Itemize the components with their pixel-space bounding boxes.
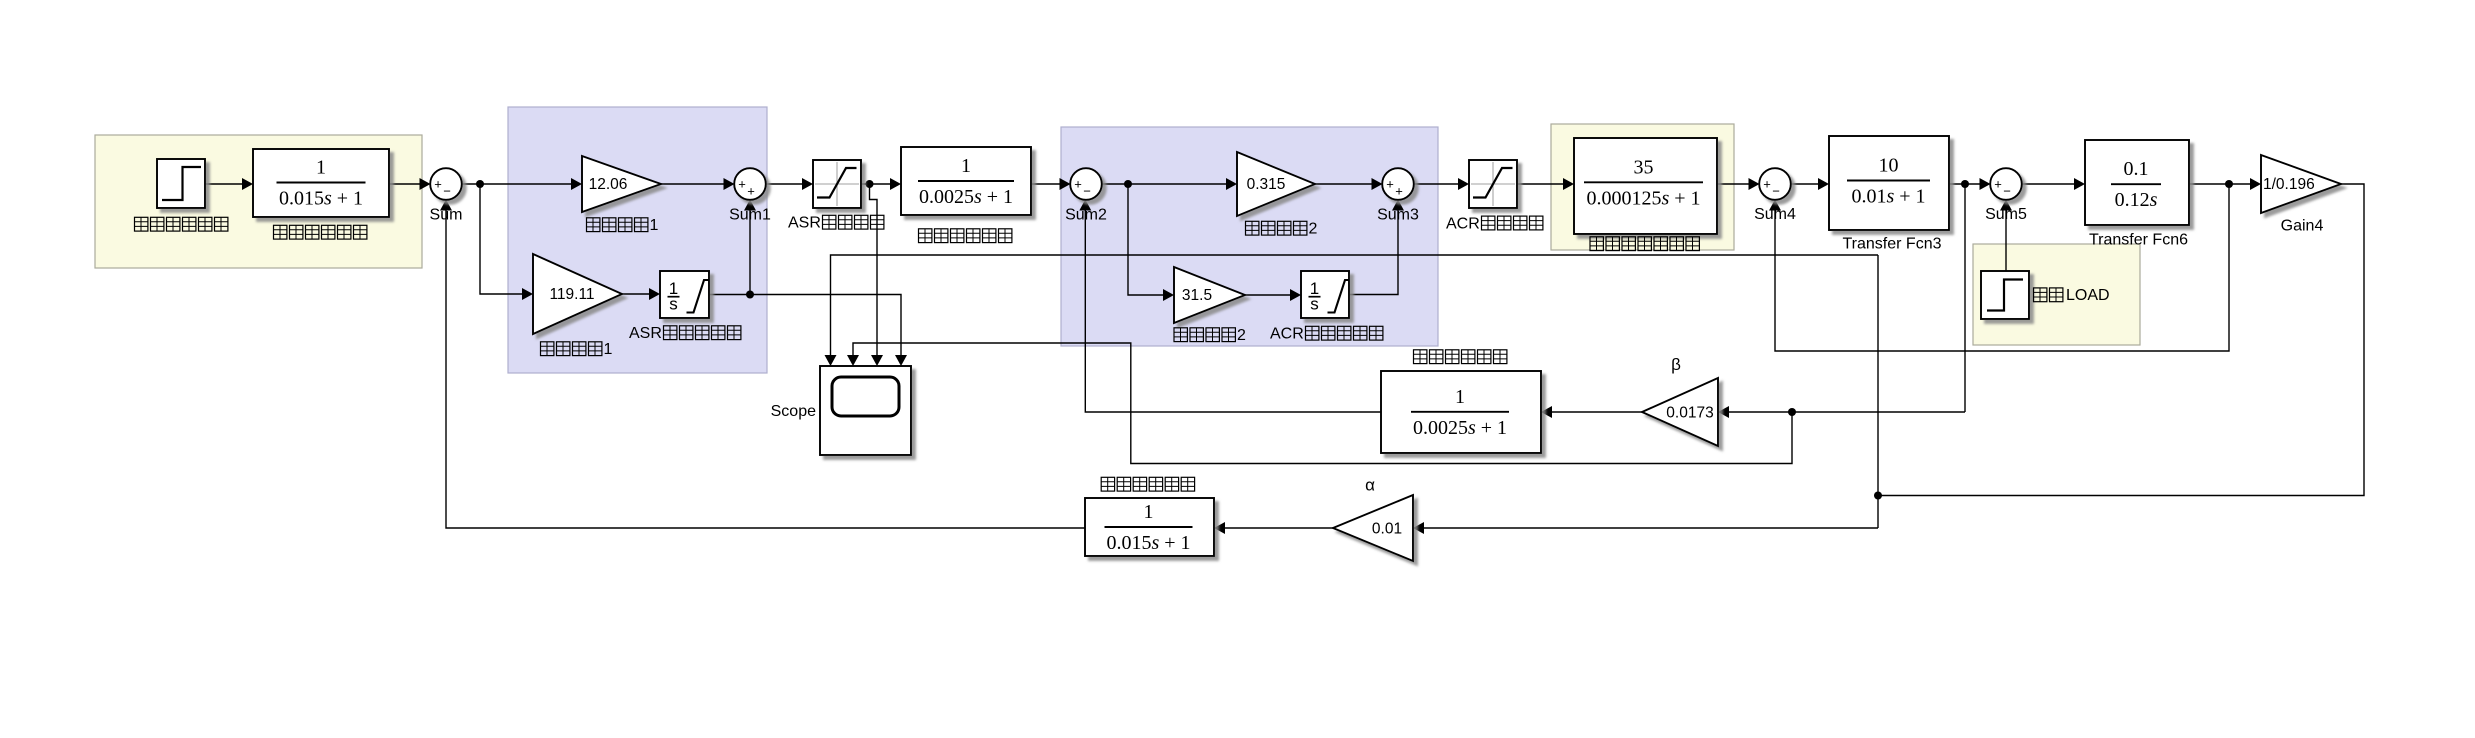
sum Sum4 — [1759, 168, 1791, 200]
wire gain31.5 to integrator2 — [1245, 294, 1291, 296]
wire branch to gain 31.5 — [1128, 184, 1164, 295]
wire current branch down — [1964, 184, 1966, 412]
svg-text:0.015s + 1: 0.015s + 1 — [279, 188, 363, 210]
wire gain119.11 to integrator1 — [622, 293, 650, 295]
node EMF after TF6 — [2225, 180, 2233, 188]
label 电流给定滤波 — [919, 229, 932, 243]
area load group (yellow) — [1973, 244, 2140, 345]
svg-text:10: 10 — [1879, 155, 1899, 177]
wire ASR output branch to scope input3 — [870, 184, 878, 356]
wire branch to gain 119.11 — [480, 184, 523, 294]
area speed-reference group (yellow) — [95, 135, 422, 268]
integrator 1/s ACR限幅积分器 — [1301, 271, 1349, 318]
gain 31.5 积分常数2 — [1174, 267, 1245, 323]
wire Sum1 to saturation ASR — [766, 183, 803, 185]
svg-text:1: 1 — [316, 157, 326, 179]
saturation ASR输出限幅 — [813, 160, 861, 208]
wire integrator1 branch up to Sum1 — [749, 211, 751, 295]
label 转速滤波环节 — [1101, 477, 1114, 491]
wire TF6 to Gain4 — [2189, 183, 2251, 185]
sum Sum2 — [1070, 168, 1102, 200]
svg-text:2: 2 — [1309, 221, 1318, 238]
sum Sum3 — [1382, 168, 1414, 200]
wire Gain4 out down to node n — [1878, 184, 2364, 496]
wire current-filter to Sum2 — [1085, 211, 1381, 413]
wire TF35 to Sum4 — [1717, 183, 1750, 185]
wire Sum4 to TF3 — [1791, 183, 1820, 185]
svg-text:−: − — [1772, 184, 1780, 199]
label 转速给定滤波 — [274, 225, 287, 239]
svg-text:1: 1 — [1455, 386, 1465, 408]
node current Id after TF3 — [1961, 180, 1969, 188]
gain 12.06 比例常数1 — [582, 156, 661, 212]
label 比例常数1 — [587, 218, 600, 232]
wire saturation ASR to TF2 — [861, 183, 891, 185]
area power converter group (yellow) — [1551, 124, 1734, 250]
svg-text:s: s — [1310, 295, 1319, 314]
svg-text:1: 1 — [961, 155, 971, 177]
wire beta to TF current-filter — [1552, 411, 1642, 413]
node current on beta line — [1788, 408, 1796, 416]
gain Gain4 1/0.196 — [2261, 155, 2341, 213]
svg-text:119.11: 119.11 — [549, 286, 594, 303]
svg-text:+: + — [1395, 184, 1403, 199]
label 比例常数2 — [1246, 221, 1259, 235]
gain 119.11 积分常数1 — [533, 254, 622, 334]
wire Sum3 to saturation ACR — [1414, 183, 1460, 185]
area ACR PI controller group (lavender) — [1061, 127, 1438, 346]
transfer fcn 转速给定滤波 1/(0.015s+1) — [253, 149, 389, 217]
node after Sum2 — [1124, 180, 1132, 188]
saturation ACR输出限幅 — [1469, 160, 1517, 208]
svg-text:0.0025s + 1: 0.0025s + 1 — [919, 186, 1013, 208]
label 电力电子变换器 — [1590, 237, 1603, 251]
label 转速给定电压 — [135, 217, 148, 231]
svg-text:+: + — [434, 177, 442, 192]
label 积分常数1 — [541, 342, 554, 356]
svg-text:+: + — [1994, 177, 2002, 192]
svg-text:2: 2 — [1237, 327, 1246, 344]
label 电流滤波环节 — [1414, 350, 1427, 364]
wire Sum to gain 12.06 — [462, 183, 573, 185]
svg-text:0.1: 0.1 — [2124, 158, 2149, 180]
svg-text:0.0173: 0.0173 — [1666, 405, 1713, 422]
wire n to gain alpha — [1424, 527, 1878, 529]
transfer fcn 电流滤波环节 1/(0.0025s+1) — [1381, 371, 1541, 453]
svg-text:0.015s + 1: 0.015s + 1 — [1106, 532, 1190, 554]
svg-text:ACR: ACR — [1270, 326, 1304, 343]
wire gain0.315 to Sum3 — [1315, 183, 1373, 185]
svg-text:1: 1 — [650, 217, 659, 234]
svg-text:1: 1 — [604, 341, 613, 358]
svg-text:35: 35 — [1634, 156, 1654, 178]
node speed n — [1874, 492, 1882, 500]
svg-text:−: − — [2003, 184, 2011, 199]
wire gain12.06 to Sum1 — [661, 183, 725, 185]
svg-text:+: + — [1386, 177, 1394, 192]
wire node n vertical — [1877, 255, 1879, 528]
wire saturation ACR to TF35 — [1517, 183, 1564, 185]
svg-text:Sum4: Sum4 — [1754, 206, 1796, 223]
transfer fcn Transfer Fcn6 0.1/(0.12s) — [2085, 140, 2189, 225]
wire TF1 to Sum — [389, 183, 421, 185]
area ASR PI controller group (lavender) — [508, 107, 767, 373]
transfer fcn 电流给定滤波 1/(0.0025s+1) — [901, 147, 1031, 215]
svg-text:β: β — [1671, 355, 1681, 374]
wire current to gain beta — [1729, 411, 1965, 413]
svg-text:Sum3: Sum3 — [1377, 207, 1419, 224]
wire alpha to TF speed-filter — [1225, 527, 1333, 529]
node integrator1 output — [746, 291, 754, 299]
node after saturation ASR — [866, 180, 874, 188]
svg-text:0.000125s + 1: 0.000125s + 1 — [1586, 187, 1700, 209]
svg-text:ASR: ASR — [788, 215, 821, 232]
svg-text:1/0.196: 1/0.196 — [2263, 176, 2315, 193]
transfer fcn Transfer Fcn3 10/(0.01s+1) — [1829, 136, 1949, 230]
wire Sum2 to gain 0.315 — [1102, 183, 1228, 185]
integrator 1/s ASR限幅积分器 — [660, 271, 709, 318]
label 积分常数2 — [1174, 328, 1187, 342]
svg-text:Scope: Scope — [771, 403, 816, 420]
svg-text:α: α — [1365, 476, 1375, 495]
svg-text:−: − — [443, 184, 451, 199]
svg-text:Transfer Fcn3: Transfer Fcn3 — [1843, 236, 1942, 253]
transfer fcn 转速滤波环节 1/(0.015s+1) — [1085, 498, 1214, 556]
svg-text:0.01s + 1: 0.01s + 1 — [1851, 186, 1925, 208]
svg-text:+: + — [1763, 177, 1771, 192]
wire EMF feedback to Sum4 — [1775, 184, 2229, 351]
wire load step to Sum5 — [2005, 211, 2007, 272]
svg-text:0.01: 0.01 — [1372, 521, 1402, 538]
wire Sum5 to TF6 — [2022, 183, 2076, 185]
sum Sum1 — [734, 168, 766, 200]
svg-text:31.5: 31.5 — [1182, 287, 1212, 304]
svg-text:LOAD: LOAD — [2066, 287, 2110, 304]
svg-text:12.06: 12.06 — [589, 176, 628, 193]
sum Sum — [430, 168, 462, 200]
svg-text:ACR: ACR — [1446, 215, 1480, 232]
svg-text:s: s — [669, 295, 678, 314]
svg-text:+: + — [747, 184, 755, 199]
gain 0.315 比例常数2 — [1237, 152, 1315, 216]
wire current branch to scope input2 — [853, 343, 1792, 464]
svg-text:Sum5: Sum5 — [1985, 206, 2027, 223]
scope Scope — [820, 366, 911, 455]
gain alpha 0.01 — [1333, 495, 1413, 561]
node branch after Sum — [476, 180, 484, 188]
label 负荷LOAD — [2034, 288, 2047, 302]
svg-text:ASR: ASR — [629, 325, 662, 342]
svg-text:Gain4: Gain4 — [2281, 218, 2324, 235]
wire TF2 to Sum2 — [1031, 183, 1061, 185]
sum Sum5 — [1990, 168, 2022, 200]
svg-text:−: − — [1083, 184, 1091, 199]
step source 转速给定电压 — [157, 159, 205, 208]
svg-text:Sum: Sum — [430, 207, 463, 224]
wire speed-filter to Sum — [446, 211, 1085, 529]
wire integrator1 out to scope input4 — [709, 295, 901, 357]
svg-text:Transfer Fcn6: Transfer Fcn6 — [2089, 232, 2188, 249]
transfer fcn 电力电子变换器 35/(0.000125s+1) — [1574, 138, 1717, 234]
svg-text:0.315: 0.315 — [1247, 176, 1286, 193]
svg-text:+: + — [738, 177, 746, 192]
wire TF3 to Sum5 — [1949, 183, 1981, 185]
gain beta 0.0173 — [1642, 378, 1718, 446]
svg-text:Sum2: Sum2 — [1065, 207, 1107, 224]
svg-text:+: + — [1074, 177, 1082, 192]
svg-text:0.12s: 0.12s — [2115, 189, 2158, 211]
svg-text:1: 1 — [1144, 501, 1154, 523]
wire speed n to scope input1 — [831, 255, 1879, 356]
wire step1 to TF1 — [205, 183, 244, 185]
step source 负荷LOAD — [1981, 271, 2029, 319]
svg-text:Sum1: Sum1 — [729, 207, 771, 224]
wire integrator2 to Sum3 — [1349, 211, 1398, 295]
svg-text:0.0025s + 1: 0.0025s + 1 — [1413, 417, 1507, 439]
